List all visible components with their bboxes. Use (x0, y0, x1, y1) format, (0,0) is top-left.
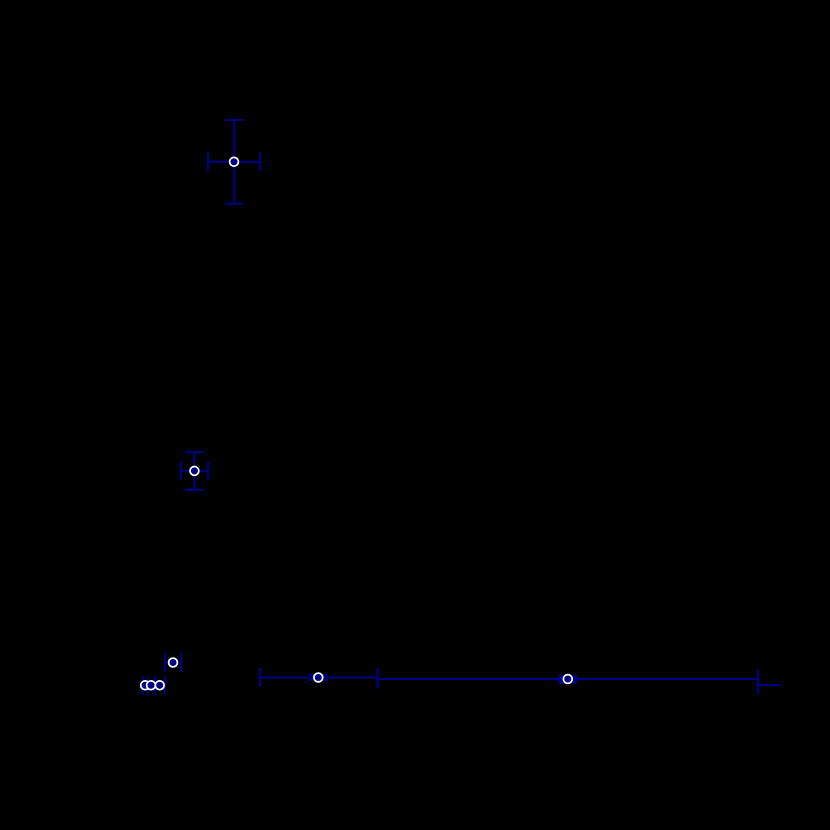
point P2 x error bar (181, 461, 208, 480)
point P4 marker (141, 681, 150, 690)
point P7 x error bar (260, 668, 378, 687)
point P8 x error bar (378, 670, 758, 689)
point P7 marker (314, 673, 323, 682)
point P3 marker (169, 658, 178, 667)
point P2 marker (190, 467, 199, 476)
cluster P4 P5 P6 x error bars (143, 676, 165, 695)
point P1 y error bar (225, 120, 243, 204)
point P8 y error bar (558, 675, 577, 684)
point P6 marker (155, 681, 164, 690)
point P1 marker (230, 157, 239, 166)
point P8 marker (563, 675, 572, 684)
point P3 x error bar (165, 653, 181, 672)
point P5 marker (147, 681, 156, 690)
point P2 y error bar (185, 452, 204, 490)
clipped x error bar P9 (758, 675, 781, 694)
point P7 y error bar (309, 675, 328, 680)
point P1 x error bar (208, 152, 260, 171)
